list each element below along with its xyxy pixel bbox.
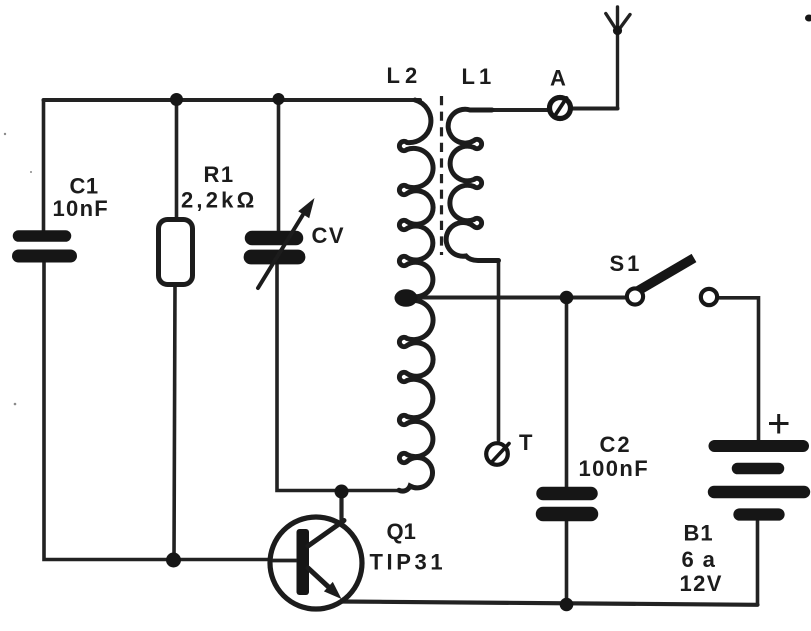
svg-text:CV: CV — [312, 223, 346, 248]
svg-text:TIP31: TIP31 — [370, 550, 447, 575]
svg-text:L1: L1 — [462, 64, 496, 89]
svg-text:12V: 12V — [680, 571, 723, 596]
svg-text:L2: L2 — [387, 63, 423, 88]
svg-text:C1: C1 — [70, 174, 99, 199]
svg-text:Q1: Q1 — [387, 519, 416, 544]
svg-text:2,2kΩ: 2,2kΩ — [181, 188, 257, 213]
svg-text:10nF: 10nF — [53, 196, 110, 221]
svg-text:B1: B1 — [684, 521, 714, 546]
svg-text:S1: S1 — [610, 251, 643, 276]
svg-text:R1: R1 — [204, 162, 235, 187]
svg-text:C2: C2 — [600, 432, 632, 457]
svg-text:T: T — [519, 430, 533, 455]
svg-text:A: A — [550, 66, 566, 91]
svg-text:6 a: 6 a — [682, 547, 717, 572]
svg-text:100nF: 100nF — [579, 456, 650, 481]
